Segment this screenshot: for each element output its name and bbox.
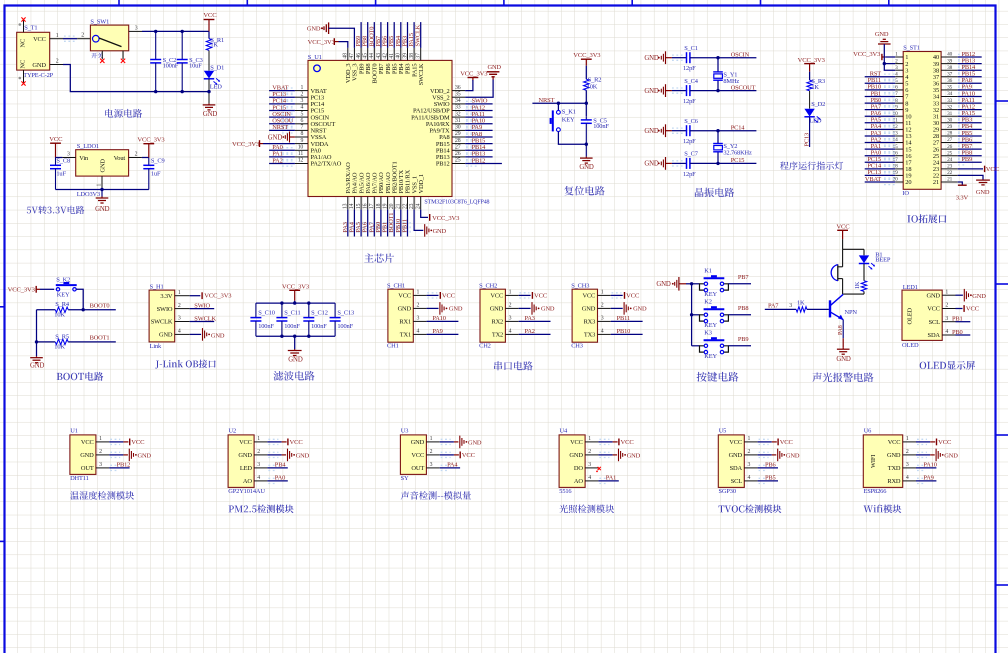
- power port VCC at U1.1: [109, 439, 145, 446]
- svg-text:VCC: VCC: [49, 136, 63, 143]
- capacitor S_C5 100nF: [581, 116, 610, 144]
- svg-text:S_D1: S_D1: [210, 64, 224, 71]
- svg-text:41: 41: [389, 53, 395, 59]
- power port VCC at ST1.23: [958, 166, 1000, 173]
- wire net PB10 at S_CH3.4: [611, 333, 643, 335]
- svg-text:VCC_3V3: VCC_3V3: [308, 39, 336, 46]
- svg-text:GND: GND: [433, 228, 447, 235]
- wire net OSCIN to U1.5: [269, 115, 295, 120]
- svg-text:1: 1: [430, 436, 433, 442]
- svg-text:U3: U3: [401, 428, 409, 435]
- pin U1.11 PA1/AO: [295, 151, 332, 161]
- pin ST1.23: [933, 164, 958, 174]
- net label PA1: [606, 475, 616, 482]
- power port VCC_3V3 at U1 VDD_3: [308, 38, 348, 48]
- svg-text:VCC_3V3: VCC_3V3: [853, 51, 881, 58]
- pin ST1.16: [893, 150, 912, 160]
- title dianyuan dianlu: [105, 109, 142, 118]
- pin T1.1 VCC: [50, 33, 63, 39]
- pin U1.13 PA3/RX/AO (bottom): [343, 162, 352, 210]
- pin U1.12 PA2/TX/AO: [295, 158, 342, 168]
- wire net PA2 at S_CH2.4: [519, 333, 551, 335]
- wire net PB1 from U1.19: [385, 210, 390, 237]
- ground GND keys: [656, 277, 686, 291]
- diode S_D1 LED: [204, 64, 224, 90]
- svg-text:U2: U2: [229, 428, 237, 435]
- net label PB12: [472, 157, 486, 164]
- svg-text:20: 20: [905, 179, 911, 186]
- net label PA9: [432, 328, 442, 335]
- net label PC13: [272, 91, 286, 98]
- title anjian dianlu keys: [697, 372, 739, 382]
- svg-text:VCC: VCC: [398, 293, 411, 300]
- svg-text:2: 2: [430, 449, 433, 455]
- svg-text:28: 28: [947, 131, 952, 137]
- power port VCC_3V3 runled: [798, 57, 826, 80]
- svg-text:GND: GND: [490, 306, 504, 313]
- pin ST1.30: [933, 118, 958, 128]
- svg-text:GND: GND: [288, 357, 303, 364]
- svg-text:NPN: NPN: [845, 309, 858, 316]
- net label BOOT0 (rotated): [368, 27, 375, 47]
- net label PA15: [962, 110, 975, 117]
- svg-text:GND: GND: [541, 306, 555, 313]
- svg-text:26: 26: [455, 151, 461, 157]
- pin U1.8 VSSA: [295, 131, 327, 141]
- wire cap to net OSCOUT: [690, 89, 757, 92]
- svg-text:2: 2: [417, 303, 420, 309]
- module U5 SGP30 body: [718, 428, 757, 495]
- wire net PA5 from U1.15: [359, 210, 364, 237]
- wire D1 to GND: [207, 79, 210, 104]
- svg-text:3: 3: [99, 462, 102, 468]
- svg-text:LED: LED: [240, 465, 253, 472]
- power port VCC at U3.2: [440, 452, 476, 459]
- svg-text:GND: GND: [203, 111, 218, 118]
- svg-text:SWCLK: SWCLK: [415, 24, 422, 46]
- wire net PB12 at U1.3: [109, 465, 129, 470]
- transistor Q1 NPN: [830, 294, 857, 320]
- svg-text:CH2: CH2: [479, 343, 491, 350]
- net label PA0: [871, 150, 881, 157]
- svg-text:GP2Y1014AU: GP2Y1014AU: [228, 488, 265, 495]
- crystal S_Y1 8MHz: [713, 58, 739, 91]
- net label PC13 (rotated): [804, 133, 811, 147]
- svg-text:35: 35: [455, 91, 461, 97]
- wire net PA0 at U2.4: [267, 478, 287, 483]
- svg-text:3: 3: [178, 316, 181, 322]
- wire net PC14 to ST1.18: [865, 166, 896, 171]
- connector S_CH3 body: [571, 283, 611, 350]
- svg-text:16: 16: [363, 203, 369, 209]
- svg-text:9: 9: [300, 138, 303, 144]
- svg-text:27: 27: [455, 145, 461, 151]
- pin U1.14 PA4/AO (bottom): [349, 172, 358, 210]
- key K1 KEY tact switch: [692, 268, 729, 298]
- pin U1.18 PB0/AO (bottom): [376, 172, 385, 210]
- power port VCC_3V3 at H1.1: [190, 292, 233, 299]
- net label PA6 (rotated): [362, 222, 369, 232]
- net label PB9: [738, 336, 749, 343]
- wire cap to net PC14: [690, 129, 757, 132]
- svg-text:VCC_3V3: VCC_3V3: [137, 137, 165, 144]
- net label PA7: [871, 103, 882, 110]
- net label BOOT1: [90, 334, 110, 341]
- wire net PA6 to ST1.10: [865, 114, 896, 119]
- module U6 ESP8266 body: [863, 428, 916, 495]
- mcu U1 STM32F103C8T6 body: [308, 54, 490, 205]
- ground GND at U1 VSS_2: [465, 64, 501, 97]
- svg-text:PB5: PB5: [765, 475, 776, 482]
- net label PB15: [472, 137, 486, 144]
- capacitor S_C6 12pF: [683, 118, 698, 145]
- net label PB13: [962, 57, 976, 64]
- net label OSCOUT: [731, 84, 756, 91]
- svg-text:8MHz: 8MHz: [723, 78, 739, 85]
- net label PB6 (rotated): [382, 36, 389, 47]
- svg-text:SWIO: SWIO: [194, 302, 210, 309]
- wire T1.1 to SW1.2: [63, 36, 77, 41]
- resistor S_R3 1K: [807, 78, 825, 91]
- svg-text:VCC: VCC: [966, 306, 980, 313]
- ground GND boot: [30, 356, 45, 369]
- ground GND at S_CH2.2: [519, 302, 555, 315]
- net label PA5: [871, 117, 881, 124]
- net label PA4 (rotated): [348, 221, 355, 232]
- title chuankou dianlu serial: [494, 361, 533, 370]
- power port VCC at U4.1: [598, 439, 634, 446]
- wire net PB6 at U5.3: [758, 465, 778, 470]
- pin SW1.2: [77, 33, 90, 39]
- svg-text:VCC_3V3: VCC_3V3: [573, 52, 601, 59]
- svg-text:GND: GND: [944, 452, 958, 459]
- svg-text:PA10: PA10: [432, 315, 445, 322]
- pin LDO1.1 GND: [96, 176, 102, 189]
- svg-text:S_R4: S_R4: [55, 301, 70, 308]
- pin ST1.11: [893, 118, 911, 128]
- svg-text:46: 46: [356, 53, 362, 59]
- net label VBAT: [865, 176, 881, 183]
- svg-text:2: 2: [178, 303, 181, 309]
- svg-text:SDA: SDA: [928, 332, 941, 339]
- svg-text:1K: 1K: [797, 299, 805, 306]
- svg-text:12pF: 12pF: [683, 138, 696, 145]
- wire net PC13 to U1.2: [269, 95, 295, 100]
- svg-text:GND: GND: [211, 332, 225, 339]
- power port VCC at S_CH2.1: [519, 292, 548, 299]
- ground GND filter: [288, 336, 303, 363]
- svg-text:DO: DO: [574, 465, 583, 472]
- net label OSCOU: [272, 118, 293, 125]
- net label PC14: [731, 125, 746, 132]
- power port VCC_3V3 filter: [282, 284, 310, 304]
- svg-text:28: 28: [455, 138, 461, 144]
- svg-text:S_C8: S_C8: [56, 157, 70, 164]
- key S_K1 KEY reset button: [550, 103, 587, 144]
- svg-text:3: 3: [945, 316, 948, 322]
- svg-text:33: 33: [455, 105, 461, 111]
- net label NRST: [272, 124, 288, 131]
- svg-text:24: 24: [947, 157, 952, 163]
- wire net PA4 from U1.14: [352, 210, 357, 237]
- wire NRST: [532, 102, 586, 105]
- wire net PB3 to U1.39: [407, 22, 409, 48]
- wire net PA9 from ST1.35: [958, 87, 982, 92]
- net label PA2: [525, 328, 535, 335]
- svg-text:OSCIN: OSCIN: [731, 52, 750, 59]
- wire VCC rail top: [142, 30, 209, 32]
- svg-text:6: 6: [300, 118, 303, 124]
- svg-text:VCC: VCC: [81, 439, 94, 446]
- title J-Link OB port: [155, 360, 216, 369]
- svg-text:GND: GND: [468, 439, 482, 446]
- title 5V to 3.3V: [27, 206, 85, 214]
- wire net PA6 from U1.16: [365, 210, 370, 237]
- pin ST1.28: [933, 131, 958, 141]
- wire net PA15 to U1.38: [413, 22, 415, 48]
- net label OSCIN: [731, 52, 750, 59]
- svg-text:VCC: VCC: [534, 292, 548, 299]
- svg-text:100nF: 100nF: [337, 323, 353, 330]
- svg-text:PB6: PB6: [765, 462, 776, 469]
- svg-text:BOOT1: BOOT1: [90, 334, 110, 341]
- pin ST1.19: [893, 170, 912, 180]
- svg-text:NRST: NRST: [272, 124, 288, 131]
- svg-text:WIFI: WIFI: [870, 455, 877, 468]
- title zhuxinpian main chip: [364, 253, 394, 262]
- wire K2 to BOOT0 node: [76, 289, 85, 311]
- net label PB4 (rotated): [395, 35, 402, 47]
- wire net PA3 at S_CH2.3: [519, 320, 551, 322]
- net label PA7 (rotated): [368, 221, 375, 232]
- wire net PB1 to ST1.7: [865, 94, 896, 99]
- net label SWCLK (rotated): [415, 24, 422, 46]
- svg-text:12pF: 12pF: [683, 171, 696, 178]
- net label PB6: [765, 462, 776, 469]
- svg-text:17: 17: [369, 203, 375, 209]
- net label PB6: [962, 136, 973, 143]
- net label PB7 (rotated): [375, 35, 382, 47]
- net label PA9: [962, 84, 972, 91]
- svg-text:GND: GND: [926, 292, 940, 299]
- ground GND at S_CH3.2: [611, 302, 647, 315]
- ground GND ldo: [95, 190, 110, 213]
- svg-text:STM32F103C8T6_LQFP48: STM32F103C8T6_LQFP48: [424, 199, 489, 205]
- svg-text:3: 3: [748, 462, 751, 468]
- wire net PB6 to U1.42: [387, 22, 389, 48]
- svg-text:48: 48: [343, 53, 349, 59]
- svg-text:22: 22: [947, 170, 952, 176]
- svg-text:VCC: VCC: [888, 439, 901, 446]
- resistor 1K base: [796, 299, 807, 312]
- pin U1.36 VDD_2: [430, 85, 465, 95]
- svg-text:GND: GND: [644, 161, 659, 168]
- svg-text:OLED: OLED: [907, 308, 914, 325]
- resistor S_R5 10K: [54, 333, 69, 350]
- wire net PA4 at U3.3: [440, 465, 460, 470]
- net label PA11: [962, 97, 975, 104]
- pin ST1.3: [895, 65, 908, 75]
- wire net SWCLK to U1.37: [420, 22, 422, 48]
- svg-text:8: 8: [300, 131, 303, 137]
- wire filter bottom rail: [256, 335, 335, 338]
- wire net PB5 from ST1.28: [958, 133, 982, 138]
- pin ST1.15: [893, 144, 912, 154]
- svg-text:25: 25: [947, 150, 952, 156]
- wire net PB10 to ST1.6: [865, 87, 896, 92]
- title program run indicator: [780, 161, 843, 170]
- wire net PC13 to ST1.19: [865, 173, 896, 178]
- svg-text:20: 20: [389, 203, 395, 209]
- capacitor S_C4 12pF: [683, 78, 699, 105]
- svg-text:42: 42: [382, 53, 388, 59]
- svg-text:GND: GND: [627, 452, 641, 459]
- wire net PA0 to ST1.16: [865, 153, 896, 158]
- pin U1.25 PB12: [436, 158, 465, 168]
- capacitor S_C11 100nF: [276, 303, 300, 336]
- title TVOC检测模块: [719, 505, 782, 514]
- svg-text:1: 1: [300, 85, 303, 91]
- title alarm circuit: [812, 373, 873, 383]
- pin ST1.7: [895, 91, 909, 101]
- pin ST1.10: [893, 111, 912, 121]
- svg-text:4: 4: [178, 329, 181, 335]
- net label PB10: [867, 84, 881, 91]
- svg-text:PA2: PA2: [272, 157, 282, 164]
- wire net BOOT0 to U1.44: [373, 22, 375, 48]
- wire net PB12 from ST1.40: [958, 54, 982, 59]
- wire net PA12 from U1.33: [465, 108, 492, 113]
- svg-text:GND: GND: [296, 452, 310, 459]
- svg-text:3: 3: [430, 462, 433, 468]
- capacitor S_C1 12pF: [683, 45, 698, 72]
- net label PA11: [472, 111, 485, 118]
- wire key trunk: [690, 282, 693, 346]
- wire net PB14 from U1.27: [465, 148, 492, 153]
- power port VCC_3V3 boot: [8, 286, 55, 294]
- net label PB1: [952, 316, 963, 323]
- svg-text:10K: 10K: [587, 83, 598, 90]
- svg-text:KEY: KEY: [57, 291, 70, 298]
- svg-text:47: 47: [349, 53, 355, 59]
- svg-text:GND: GND: [582, 306, 596, 313]
- svg-text:33: 33: [947, 98, 952, 104]
- wire net SWCLK: [190, 321, 215, 323]
- svg-text:S_K2: S_K2: [56, 276, 70, 283]
- svg-text:1: 1: [56, 33, 59, 39]
- svg-text:3.3V: 3.3V: [160, 293, 173, 300]
- pin LDO1.2 Vout: [129, 152, 142, 158]
- svg-text:2: 2: [509, 303, 512, 309]
- svg-text:3.3V: 3.3V: [956, 195, 969, 202]
- svg-text:23: 23: [947, 164, 952, 170]
- connector S_H1 J-Link body: [149, 283, 190, 350]
- svg-text:PA3: PA3: [525, 315, 535, 322]
- svg-text:1: 1: [257, 436, 260, 442]
- net label PB11: [617, 315, 630, 322]
- power port VCC alarm: [836, 223, 850, 249]
- wire net PB13 from ST1.39: [958, 61, 982, 66]
- svg-text:36: 36: [455, 85, 461, 91]
- wire net SWIO: [190, 308, 215, 310]
- pin ST1.12: [893, 124, 912, 134]
- pin U1.26 PB13: [436, 151, 465, 161]
- svg-text:1K: 1K: [210, 42, 218, 49]
- net label RST: [870, 71, 882, 78]
- svg-text:PB12: PB12: [436, 161, 450, 168]
- svg-text:3: 3: [588, 462, 591, 468]
- svg-text:GND: GND: [95, 206, 110, 213]
- wire LDO to C9: [142, 157, 149, 159]
- wire gnd to cap S_C7: [672, 161, 687, 166]
- svg-text:21: 21: [933, 179, 939, 186]
- title 声音检测--模拟量: [401, 491, 471, 500]
- net label PB9: [962, 156, 973, 163]
- net label PA15 (rotated): [408, 33, 415, 46]
- net label SWCLK: [194, 315, 216, 322]
- svg-text:GND: GND: [80, 452, 94, 459]
- net label PA9: [472, 124, 482, 131]
- pin U1.7 NRST: [295, 125, 327, 135]
- capacitor S_C12 100nF: [303, 303, 327, 336]
- pin U1.27 PB14: [436, 145, 465, 155]
- pin T1 top NC: [19, 21, 24, 33]
- wire net PC15 to ST1.17: [865, 160, 896, 165]
- wire key K2 to net PB8: [728, 314, 751, 316]
- svg-text:GND: GND: [159, 332, 173, 339]
- net label PB1 (rotated): [382, 222, 389, 233]
- net label PB15: [962, 71, 976, 78]
- net label PB8: [738, 305, 749, 312]
- svg-text:32: 32: [455, 111, 461, 117]
- wire net PB6 from ST1.27: [958, 140, 982, 145]
- svg-text:SCL: SCL: [929, 319, 941, 326]
- resistor S_R1 1K: [206, 31, 224, 50]
- power port VCC_3V3 at U1 VDDA: [232, 140, 295, 148]
- wire net PA2 to U1.12: [269, 161, 295, 166]
- svg-text:VCC: VCC: [442, 292, 456, 299]
- title jingzhen dianlu crystal: [695, 188, 734, 197]
- junction bottom rail: [181, 90, 184, 93]
- net label PB3 (rotated): [402, 36, 409, 47]
- svg-text:35: 35: [947, 85, 952, 91]
- svg-text:VCC: VCC: [33, 36, 46, 43]
- svg-text:RX1: RX1: [399, 319, 411, 326]
- svg-text:VCC_3V3: VCC_3V3: [282, 284, 310, 291]
- pin ST1.17: [893, 157, 913, 167]
- svg-text:4: 4: [257, 475, 260, 481]
- power port VCC at LED1.2: [956, 305, 980, 313]
- ground GND crystal row 2: [644, 84, 672, 97]
- svg-text:21: 21: [396, 203, 402, 209]
- pin ST1.36: [933, 78, 958, 88]
- pin U1.33 PA12/USB/DP: [413, 105, 465, 115]
- svg-text:VCC: VCC: [621, 439, 635, 446]
- svg-text:GND: GND: [644, 128, 659, 135]
- net label BOOT0: [90, 302, 110, 309]
- ground GND at U2.2: [267, 449, 309, 462]
- svg-text:22: 22: [402, 203, 408, 209]
- pin ST1.2: [895, 58, 908, 68]
- net label PC15: [272, 104, 286, 111]
- svg-text:PB9: PB9: [962, 156, 973, 163]
- svg-text:GND: GND: [238, 452, 252, 459]
- net label PC14: [272, 98, 287, 105]
- svg-text:GND: GND: [836, 356, 851, 363]
- net label PB4: [962, 123, 974, 130]
- svg-text:VCC: VCC: [927, 306, 940, 313]
- pin ST1.13: [893, 131, 912, 141]
